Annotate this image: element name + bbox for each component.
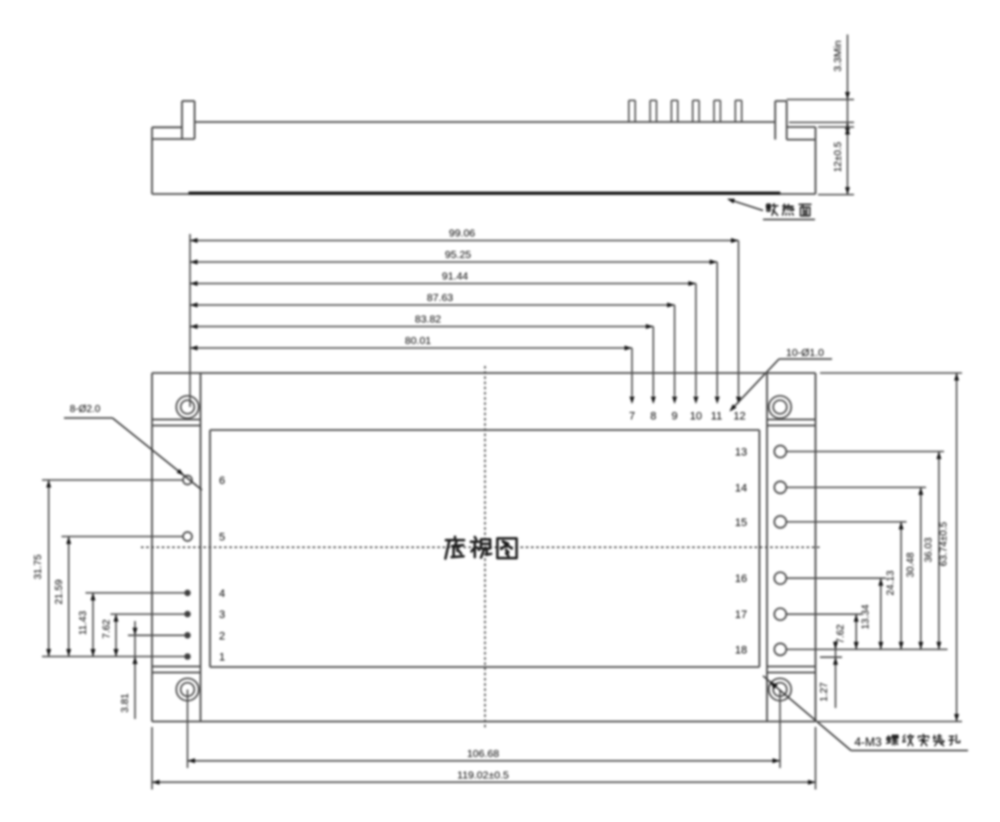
side view left mounting boss: [181, 101, 183, 139]
svg-text:83.82: 83.82: [415, 314, 441, 326]
svg-text:9: 9: [672, 411, 678, 423]
extension line from top-left mounting hole: [189, 234, 191, 407]
svg-text:12±0.5: 12±0.5: [833, 141, 844, 172]
right flange strip line: [766, 373, 768, 722]
dimension 13.34 right: [880, 578, 882, 649]
pin 4: [185, 590, 190, 595]
pin 18 extension line: [787, 648, 948, 650]
dimension 12±0.5: [818, 126, 854, 128]
svg-text:21.59: 21.59: [54, 579, 65, 604]
svg-text:11.43: 11.43: [78, 610, 89, 635]
svg-text:13: 13: [735, 447, 747, 459]
svg-text:17: 17: [735, 609, 747, 621]
pin 1 extension line: [42, 656, 185, 658]
svg-text:15: 15: [735, 517, 747, 529]
pin 1: [185, 654, 190, 659]
svg-text:13.34: 13.34: [861, 604, 872, 629]
pin 15: [774, 516, 786, 528]
dimension 99.06 (pin at x=738.5): [190, 240, 739, 242]
svg-text:3.81: 3.81: [120, 693, 131, 713]
dimension 7.62 left: [115, 614, 117, 656]
dimension 24.13 right: [900, 522, 902, 650]
mounting hole M3 top-right: [769, 396, 791, 418]
svg-text:6: 6: [219, 475, 225, 487]
svg-text:18: 18: [735, 644, 747, 656]
pin 2 extension line: [128, 634, 185, 636]
dimension 11.43: [92, 593, 94, 657]
pin 3 extension line: [111, 613, 185, 615]
pin 3: [185, 611, 190, 616]
side view pins 7-12: [628, 100, 630, 122]
svg-text:24.13: 24.13: [886, 570, 897, 595]
svg-text:7.62: 7.62: [102, 619, 113, 639]
svg-text:4: 4: [219, 588, 225, 600]
dimension 31.75: [48, 480, 50, 657]
dimension 91.44 (pin at x=695.9): [190, 283, 696, 285]
pin 16 extension line: [787, 577, 886, 579]
pin 5: [183, 532, 192, 541]
svg-text:4-M3: 4-M3: [854, 735, 882, 749]
dimension 3.3Min: [787, 99, 854, 101]
svg-text:16: 16: [735, 573, 747, 585]
dimension 36.03 right: [938, 452, 940, 650]
svg-text:99.06: 99.06: [449, 228, 475, 240]
pin 5 extension line: [62, 536, 183, 538]
pin 13 extension line: [787, 451, 944, 453]
svg-text:106.68: 106.68: [467, 748, 499, 760]
pin 2: [185, 633, 190, 638]
svg-text:30.48: 30.48: [906, 552, 917, 577]
pin 6 extension line: [42, 479, 183, 481]
svg-text:3.3Min: 3.3Min: [832, 40, 844, 72]
pin 18: [774, 643, 786, 655]
dimension 80.01 (pin at x=632): [190, 347, 632, 349]
svg-text:7.62: 7.62: [836, 624, 847, 644]
svg-text:63.74±0.5: 63.74±0.5: [939, 521, 950, 566]
svg-text:80.01: 80.01: [405, 335, 431, 347]
svg-text:12: 12: [733, 411, 745, 423]
side view module body outline: [152, 126, 182, 128]
dimension 83.82 (pin at x=653.3): [190, 326, 653, 328]
svg-text:10-Ø1.0: 10-Ø1.0: [786, 347, 824, 359]
svg-text:5: 5: [219, 532, 225, 544]
top-right mounting ear lines: [767, 419, 816, 421]
svg-text:8: 8: [650, 411, 656, 423]
svg-text:87.63: 87.63: [427, 292, 453, 304]
svg-text:3: 3: [219, 609, 225, 621]
pin 13: [774, 446, 786, 458]
svg-text:2: 2: [219, 630, 225, 642]
dimension 7.62 right: [855, 614, 857, 649]
svg-text:8-Ø2.0: 8-Ø2.0: [70, 404, 101, 415]
side view right mounting boss: [774, 101, 776, 140]
svg-text:11: 11: [711, 411, 722, 423]
dimension 3.81: [134, 621, 136, 719]
horizontal centerline: [141, 546, 821, 548]
mounting hole M3 top-left: [176, 396, 198, 418]
dimension 30.48 right: [920, 487, 922, 649]
svg-text:10: 10: [690, 411, 702, 423]
top-left mounting ear lines: [152, 419, 201, 421]
dimension 119.02±0.5 overall width: [151, 727, 153, 790]
pin 17: [774, 608, 786, 620]
svg-text:7: 7: [629, 411, 635, 423]
dimension 1.27: [820, 656, 842, 658]
mounting hole M3 bottom-left: [176, 678, 198, 700]
pin 14 extension line: [787, 486, 926, 488]
center label bottom-view (di shi tu): [445, 537, 464, 559]
svg-text:119.02±0.5: 119.02±0.5: [457, 770, 509, 782]
pin 4 extension line: [86, 592, 185, 594]
pin 14: [774, 481, 786, 493]
pin 15 extension line: [787, 521, 907, 523]
dimension 95.25 (pin at x=717.2): [190, 261, 717, 263]
dimension 87.63 (pin at x=674.6): [190, 304, 675, 306]
label heatsink face (san re mian) with leader: [729, 199, 764, 210]
vertical centerline: [484, 366, 486, 728]
dimension 106.68 hole spacing: [187, 690, 189, 769]
bottom-right mounting ear lines: [767, 666, 816, 668]
pin 6: [183, 476, 192, 485]
dimension 63.74±0.5 overall height: [820, 372, 962, 374]
svg-text:14: 14: [735, 482, 747, 494]
svg-text:91.44: 91.44: [442, 271, 468, 283]
dimension 21.59: [68, 537, 70, 657]
bottom-left mounting ear lines: [152, 666, 201, 668]
svg-text:1: 1: [219, 652, 225, 664]
mounting hole M3 bottom-right: [769, 678, 791, 700]
svg-text:1.27: 1.27: [819, 682, 830, 702]
svg-text:95.25: 95.25: [445, 249, 471, 261]
baseplate heatsink face thick line: [189, 192, 781, 195]
svg-text:36.03: 36.03: [924, 537, 935, 562]
bottom view outer case outline: [152, 372, 816, 374]
potting boundary inner rectangle: [210, 429, 759, 431]
pin 16: [774, 572, 786, 584]
left flange strip line: [200, 373, 202, 722]
svg-text:31.75: 31.75: [33, 554, 44, 579]
pin 17 extension line: [787, 613, 862, 615]
